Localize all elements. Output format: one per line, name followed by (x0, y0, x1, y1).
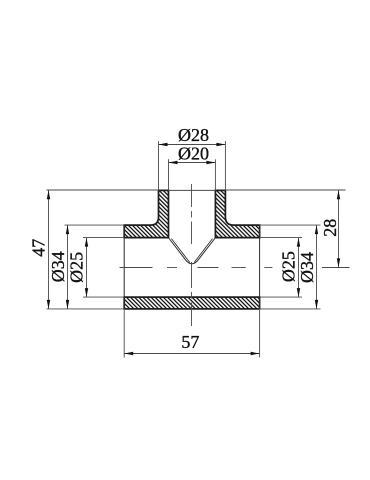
svg-text:Ø28: Ø28 (178, 125, 209, 145)
arrowhead 57 left (124, 352, 133, 355)
extension line top outer right (260, 224, 321, 226)
dimension line 47 (48, 190, 50, 309)
extension line 57 left (123, 310, 125, 358)
svg-text:Ø34: Ø34 (297, 252, 317, 283)
arrowhead d28 right (216, 143, 225, 146)
extension line d20 left (168, 159, 170, 190)
inner cone inner V line right (194, 239, 212, 263)
svg-text:Ø25: Ø25 (279, 251, 299, 282)
dimension line d25 left (86, 238, 88, 298)
arrowhead d34 left top (66, 225, 69, 234)
dimension line d34 right (316, 225, 318, 309)
arrowhead d25 left bottom (85, 288, 88, 297)
hatched wall: right branch wall + right top body wall (L-shape) (215, 190, 259, 237)
extension line inner bottom right (260, 296, 302, 298)
extension line 28 top right (225, 189, 345, 191)
svg-text:28: 28 (320, 219, 340, 237)
dimension line 28 right (338, 190, 340, 268)
arrowhead d25 left top (85, 238, 88, 247)
arrowhead d28 left (159, 143, 168, 146)
body right end face (259, 225, 261, 309)
horizontal centerline of body (120, 267, 350, 269)
extension line bottom outer left (47, 308, 125, 310)
arrowhead d25 right top (297, 238, 300, 247)
extension line d20 right (214, 159, 216, 190)
inner cone outer V line (169, 238, 216, 264)
dimension line 57 (124, 353, 259, 355)
arrowhead d20 right (206, 161, 215, 164)
svg-text:Ø34: Ø34 (48, 251, 68, 282)
svg-text:47: 47 (29, 239, 49, 257)
arrowhead d34 right bottom (315, 300, 318, 309)
svg-text:Ø25: Ø25 (67, 252, 87, 283)
arrowhead d25 right bottom (297, 288, 300, 297)
body left end face (123, 225, 125, 309)
dimension line d25 right (298, 238, 300, 298)
hatched wall: bottom body wall (124, 297, 259, 309)
arrowhead 57 right (251, 352, 260, 355)
dimension line d20 (169, 162, 216, 164)
extension line d28 right (224, 141, 226, 190)
extension line 57 right (259, 310, 261, 358)
inner cone inner V line left (171, 239, 189, 263)
vertical centerline of branch (191, 184, 193, 326)
hatched wall: left branch wall + left top body wall (L-shape) (124, 190, 168, 237)
arrowhead 28 bottom (337, 258, 340, 267)
arrowhead 28 top (337, 190, 340, 199)
dimension line d34 left (67, 225, 69, 309)
arrowhead d20 left (169, 161, 178, 164)
extension line inner top left (83, 237, 124, 239)
extension line inner bottom left (83, 296, 124, 298)
arrowhead 47 bottom (47, 300, 50, 309)
svg-text:Ø20: Ø20 (178, 143, 209, 163)
branch mouth rim line (169, 189, 216, 191)
svg-text:57: 57 (181, 332, 199, 352)
arrowhead d34 left bottom (66, 300, 69, 309)
arrowhead d34 right top (315, 225, 318, 234)
extension line bottom outer right (260, 308, 321, 310)
arrowhead 47 top (47, 190, 50, 199)
extension line inner top right (260, 237, 302, 239)
dimension line d28 (159, 144, 226, 146)
extension line top outer left (65, 224, 125, 226)
extension line 47 top (47, 189, 159, 191)
extension line d28 left (158, 141, 160, 190)
